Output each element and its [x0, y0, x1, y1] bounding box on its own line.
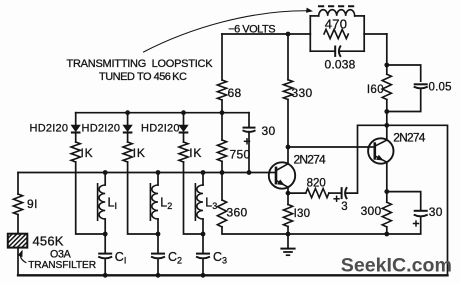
resistor R11 300 ohm	[382, 202, 391, 227]
svg-text:300: 300	[361, 204, 382, 218]
wire 130 ohm to ground rail	[287, 227, 289, 235]
inductor L2	[150, 183, 158, 221]
resistor R9 360 ohm	[217, 200, 226, 227]
wire L2 top lead	[157, 173, 159, 186]
resistor R10 130 ohm	[283, 205, 292, 227]
wire 160 junction down to Q2 collector node	[386, 112, 388, 126]
label L1	[108, 196, 117, 212]
wire 3uF cap feedback up to collector rail	[346, 125, 387, 193]
svg-text:2N274: 2N274	[393, 130, 425, 144]
svg-text:0.038: 0.038	[325, 57, 356, 71]
wire Q2 emitter lead	[386, 162, 388, 191]
capacitor C3	[196, 254, 210, 259]
svg-text:330: 330	[292, 86, 313, 100]
wire 330 ohm to Q1 collector node	[287, 100, 289, 148]
svg-text:470: 470	[325, 17, 348, 32]
resistor R12 820 ohm	[306, 189, 329, 198]
value 130	[294, 208, 311, 220]
svg-text:9I: 9I	[27, 197, 38, 211]
junction tank2 tap	[156, 232, 161, 237]
value 360	[227, 205, 248, 219]
svg-text:750: 750	[230, 147, 251, 161]
resistor R1 68 ohm	[217, 80, 226, 100]
inductor loopstick winding	[319, 10, 355, 16]
value 300	[361, 204, 382, 218]
wire ground rail to 300 ohm bottom	[288, 233, 387, 235]
resistor R3 330 ohm	[283, 80, 292, 100]
svg-text:2N274: 2N274	[294, 153, 326, 167]
wire bus junction down to 360 ohm	[221, 173, 223, 201]
transistor Q1 2N274	[269, 162, 295, 188]
wire diode CR2 cathode to 1K R4	[127, 133, 129, 142]
svg-text:HD2I20: HD2I20	[30, 123, 69, 135]
svg-text:TUNED TO 456 KC: TUNED TO 456 KC	[99, 71, 187, 83]
junction Q2 emitter node	[384, 189, 389, 194]
wire Q1 collector lead	[287, 147, 289, 164]
label 2N274 Q2	[393, 130, 425, 144]
wire 160 ohm to lower 0.05 junction	[386, 100, 388, 112]
resistor R4 1K	[123, 142, 132, 162]
polarity plus of 30uF coupling	[244, 138, 250, 144]
value 470	[325, 17, 348, 32]
wire diode feed corner down to 30uF coupling cap	[248, 113, 250, 128]
wire L3 top lead	[202, 173, 204, 186]
wire bottom ground bus	[18, 274, 448, 276]
wire 91 ohm to transfilter	[17, 215, 19, 234]
svg-text:360: 360	[227, 205, 248, 219]
wire main base bus	[18, 172, 269, 174]
junction Q1 collector node	[286, 145, 291, 150]
wire 750 ohm to bus junction	[221, 161, 223, 172]
svg-text:0.05: 0.05	[429, 82, 452, 94]
junction diode feed / 68 ohm	[220, 110, 225, 115]
capacitor C2	[151, 254, 165, 259]
value 30 emitter bypass	[429, 205, 443, 219]
label TUNED TO 456KC	[99, 71, 187, 83]
diode CR3 HD2120	[179, 125, 189, 132]
wire 470 box bottom with 0.038 cap left	[310, 50, 334, 52]
value 30 coupling	[262, 124, 276, 138]
label TRANSFILTER	[28, 260, 96, 271]
value 1K third	[189, 146, 202, 160]
junction bus / 30uF coupling	[247, 170, 252, 175]
wire diode feed rail	[76, 112, 249, 114]
label HD2120 third	[141, 123, 180, 135]
capacitor 0.05	[414, 84, 428, 88]
value 1K first	[81, 146, 94, 160]
svg-text:TRANSMITTING LOOPSTICK: TRANSMITTING LOOPSTICK	[67, 58, 214, 70]
resistor R5 160 ohm	[382, 74, 391, 99]
wire Q2 emitter node down to 300 ohm	[386, 192, 388, 203]
junction 160 bottom node	[384, 109, 389, 114]
wire Q2 collector lead	[386, 125, 388, 140]
junction bottom bus / C3	[201, 273, 206, 278]
wire 470 box bottom with 0.038 cap right	[341, 50, 364, 52]
wire L2 bottom lead	[157, 219, 159, 234]
svg-text:IK: IK	[133, 146, 146, 160]
leader line transfilter callout	[18, 250, 26, 263]
value 0.05	[429, 82, 452, 94]
junction 160 top node	[384, 63, 389, 68]
junction tank1 tap	[103, 232, 108, 237]
wire ground rail to right 30uF bottom	[387, 216, 421, 234]
resistor R7 750 ohm	[217, 140, 226, 161]
label C2	[168, 250, 182, 266]
wire Q1 emitter lead	[287, 187, 289, 193]
wire tank2 tap down to C2	[157, 234, 159, 253]
diode CR1 HD2120	[71, 125, 81, 132]
svg-text:820: 820	[307, 177, 326, 189]
junction diode feed / CR3	[181, 110, 186, 115]
resistor R6 1K	[179, 142, 188, 162]
wire 0.05 top link	[387, 65, 421, 81]
wire 300 ohm to ground rail	[386, 227, 388, 234]
svg-text:30: 30	[262, 124, 276, 138]
resistor R8 91 ohm	[13, 194, 22, 215]
wire C1 to bottom bus	[104, 259, 106, 275]
label L2	[160, 196, 172, 212]
wire L3 bottom lead	[202, 219, 204, 234]
value 68	[228, 86, 242, 100]
value 160	[367, 84, 384, 96]
inductor L3	[195, 183, 203, 221]
junction bus / L2	[156, 170, 161, 175]
ground	[280, 234, 295, 255]
capacitor 30uF coupling	[243, 128, 256, 132]
wire diode CR2 top lead	[127, 113, 129, 126]
junction ground rail / 300 ohm	[384, 232, 389, 237]
label 2N274 Q1	[294, 153, 326, 167]
svg-text:HD2I20: HD2I20	[141, 123, 180, 135]
label L3	[205, 196, 217, 212]
wire diode CR1 cathode to 1K R2	[75, 133, 77, 142]
value 0.038	[325, 57, 356, 71]
wire -6 volt supply rail right segment	[364, 33, 387, 35]
value 1K second	[133, 146, 146, 160]
svg-text:IK: IK	[81, 146, 94, 160]
wire transfilter to bottom bus	[17, 248, 19, 276]
resistor R13 470 ohm	[324, 29, 348, 38]
value 750	[230, 147, 251, 161]
wire -6 volt supply rail left segment	[222, 33, 310, 35]
value 330	[292, 86, 313, 100]
wire Q2 emitter to right 30uF	[387, 192, 421, 210]
wire 470 box top left segment	[310, 15, 318, 17]
capacitor 3uF feedback	[342, 187, 347, 199]
polarity plus of 30uF emitter bypass	[413, 220, 419, 226]
svg-text:HD2I20: HD2I20	[82, 123, 121, 135]
watermark SeekIC.com	[341, 255, 452, 277]
svg-text:−6 VOLTS: −6 VOLTS	[228, 23, 275, 35]
wire diode CR3 cathode to 1K R6	[183, 133, 185, 142]
junction diode feed / CR2	[125, 110, 130, 115]
wire 1K R2 bottom crossing bus to tank 1 tap	[76, 162, 106, 234]
wire Q2 collector node rail to right edge	[387, 125, 448, 275]
svg-text:I60: I60	[367, 84, 384, 96]
label 456K	[33, 233, 64, 248]
svg-text:I30: I30	[294, 208, 311, 220]
label HD2120 first	[30, 123, 69, 135]
wire diode CR3 top lead	[183, 113, 185, 126]
junction bus / L3	[201, 170, 206, 175]
wire supply down to 68 ohm resistor	[221, 34, 223, 80]
junction Q1 emitter node	[286, 191, 291, 196]
transistor Q2 2N274	[368, 138, 393, 163]
svg-text:30: 30	[429, 205, 443, 219]
inductor L1	[98, 183, 106, 221]
wire 68 ohm resistor to diode feed junction	[221, 100, 223, 113]
label O3A	[50, 249, 72, 261]
wire Q1 emitter to 820 ohm	[288, 192, 306, 194]
wire Q1 emitter node to 130 ohm	[287, 193, 289, 204]
label C1	[115, 250, 127, 266]
value 3	[341, 201, 347, 213]
wire L1 top lead	[104, 173, 106, 186]
svg-text:O3A: O3A	[50, 249, 72, 261]
junction bus / 750-360	[220, 170, 225, 175]
junction bottom bus / C1	[103, 273, 108, 278]
wire 1K R4 bottom crossing bus to tank 2 tap	[128, 162, 158, 234]
label HD2120 second	[82, 123, 121, 135]
wire supply junction down to 330 ohm	[287, 34, 289, 80]
svg-text:IK: IK	[189, 146, 202, 160]
junction tank3 tap	[201, 232, 206, 237]
svg-text:456K: 456K	[33, 233, 64, 248]
svg-text:SeekIC.com: SeekIC.com	[341, 255, 452, 277]
wire 360 ohm to ground rail	[222, 227, 288, 234]
svg-text:TRANSFILTER: TRANSFILTER	[28, 260, 96, 271]
wire 820 ohm to 3uF cap	[329, 192, 342, 194]
diode CR2 HD2120	[123, 125, 133, 132]
junction bottom bus / C2	[156, 273, 161, 278]
label C3	[213, 250, 227, 266]
wire L1 bottom lead	[104, 219, 106, 234]
wire diode feed junction down to 750 ohm	[221, 113, 223, 140]
wire tank3 tap down to C3	[202, 234, 204, 253]
polarity plus of 3uF feedback	[333, 196, 339, 202]
junction supply / 330 ohm	[286, 32, 291, 37]
wire 470 box left side	[309, 16, 311, 51]
svg-text:3: 3	[341, 201, 347, 213]
junction ground rail / 130 ohm	[286, 232, 291, 237]
wire 0.05 bottom link	[387, 89, 421, 112]
wire 30uF coupling cap to base bus	[248, 132, 250, 173]
transfilter FL1 456KC	[0, 234, 45, 248]
svg-text:68: 68	[228, 86, 242, 100]
wire diode feed corner down to diode CR1	[75, 113, 77, 126]
wire Q1 collector node to Q2 base	[288, 146, 368, 148]
wire bus corner down to 91 ohm resistor	[17, 173, 19, 195]
wire 470 box top right segment	[355, 15, 365, 17]
wire supply corner down to 160 ohm	[386, 34, 388, 74]
capacitor 30uF emitter bypass	[414, 211, 428, 217]
junction bus / L1	[103, 170, 108, 175]
net label -6 VOLTS	[228, 23, 275, 35]
capacitor 0.038 tank	[335, 46, 341, 57]
resistor R2 1K	[71, 142, 80, 162]
wire 1K R6 bottom crossing bus to tank 3 tap	[184, 162, 204, 234]
wire 470 box right side	[363, 16, 365, 51]
value 91	[27, 197, 38, 211]
wire tank1 tap down to C1	[104, 234, 106, 253]
loopstick core dashed line	[318, 5, 356, 7]
wire C3 to bottom bus	[202, 259, 204, 275]
wire C2 to bottom bus	[157, 259, 159, 275]
junction Q2 collector node	[384, 123, 389, 128]
value 820	[307, 177, 326, 189]
leader line loopstick callout	[144, 8, 314, 52]
capacitor C1	[98, 254, 112, 259]
label TRANSMITTING LOOPSTICK	[67, 58, 214, 70]
